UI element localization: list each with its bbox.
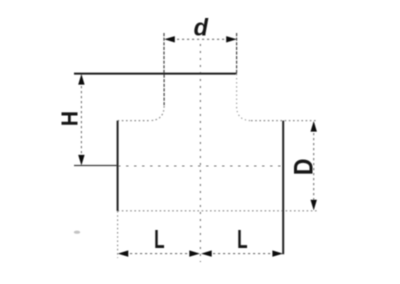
dimension d: left extension line above top face <box>163 33 165 73</box>
dimension L right: line <box>203 253 280 255</box>
L-right arrow right <box>272 250 283 256</box>
horizontal centerline of run <box>118 165 283 167</box>
run bottom line + D extension <box>118 210 317 212</box>
H arrow down <box>78 155 84 166</box>
L-left arrow left <box>118 250 129 256</box>
L-left arrow right <box>189 250 200 256</box>
tee top face (solid) <box>74 73 237 75</box>
H bottom extension line <box>74 165 117 167</box>
branch left edge upper segment <box>163 75 165 107</box>
D arrow down <box>311 200 317 211</box>
svg-text:L: L <box>237 224 247 254</box>
right end of run (solid, continues as L extension) <box>282 121 284 255</box>
svg-text:H: H <box>56 111 82 126</box>
dimension D: line <box>313 123 315 208</box>
branch left edge with fillet <box>150 106 165 121</box>
d arrow right <box>226 36 237 42</box>
vertical centerline of branch <box>199 44 201 262</box>
left end extension for L <box>117 211 119 258</box>
run top line left of branch <box>118 120 150 122</box>
D arrow up <box>311 121 317 132</box>
dimension d: right extension line above top face <box>236 33 238 73</box>
dimension H: line <box>80 76 82 164</box>
dimension d: line <box>167 38 234 40</box>
d arrow left <box>164 36 175 42</box>
dimension L left: line <box>120 253 198 255</box>
left end of run (solid) <box>117 121 119 211</box>
svg-text:D: D <box>289 159 319 176</box>
svg-text:d: d <box>194 14 209 41</box>
run top line right of branch + D extension <box>251 120 317 122</box>
H arrow up <box>78 74 84 85</box>
svg-text:L: L <box>154 224 164 254</box>
L-right arrow left <box>201 250 212 256</box>
branch right edge with fillet <box>237 74 251 121</box>
